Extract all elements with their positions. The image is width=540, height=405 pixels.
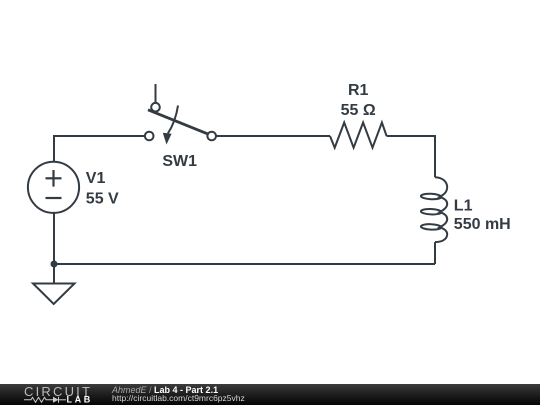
svg-text:55 Ω: 55 Ω	[341, 102, 376, 119]
svg-text:SW1: SW1	[162, 153, 197, 170]
svg-text:R1: R1	[348, 82, 369, 99]
svg-text:LAB: LAB	[67, 395, 93, 405]
svg-text:L1: L1	[454, 198, 473, 215]
svg-text:V1: V1	[86, 170, 106, 187]
svg-text:55 V: 55 V	[86, 190, 119, 207]
svg-text:550 mH: 550 mH	[454, 216, 511, 233]
